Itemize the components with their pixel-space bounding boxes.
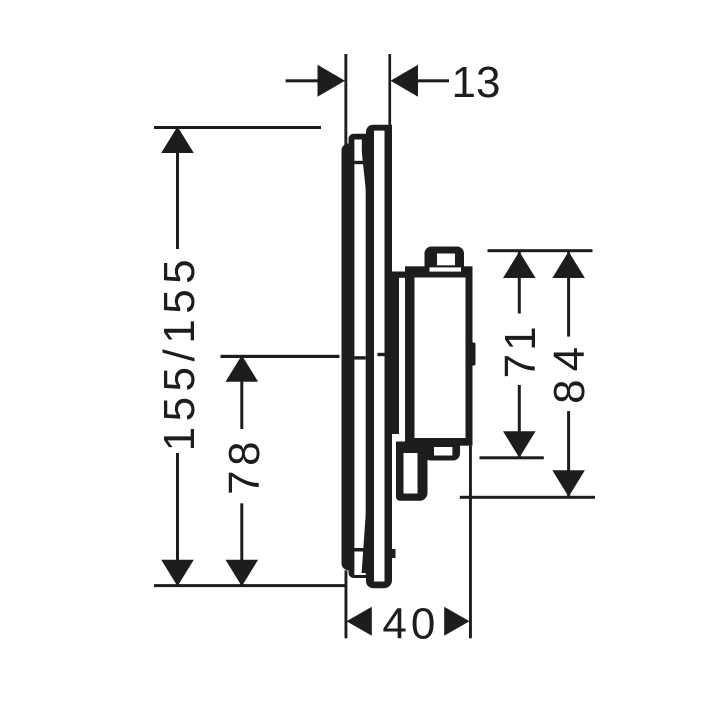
body interior white [415,278,466,439]
flush box interior white [404,453,418,494]
dim 78: tick across handle channel [354,356,366,359]
dimension graphics [154,54,595,638]
svg-text:40: 40 [382,599,439,648]
holder strip [392,272,399,435]
front plate [342,144,355,571]
dim 71: bottom arrowhead [503,431,536,458]
handle seam bottom [354,548,364,552]
dim 13: left arrowhead [318,65,346,97]
cap notch white [437,254,455,266]
dim 13: right extension line [388,54,391,127]
handle box outer [349,134,367,578]
dim 84: shaft bottom [567,411,570,496]
dim 13: right arrowhead [391,65,419,97]
cartridge top cap [425,247,465,269]
flush box outer [396,442,428,501]
white sliver under cap [430,267,462,271]
dim 84: top arrowhead [552,252,585,279]
dim 78: top extension line [221,355,340,358]
strip nub [392,549,396,558]
cartridge bottom cap [425,438,460,461]
cartridge body outer [405,266,473,445]
dim 78: bottom arrowhead [226,560,259,587]
handle back wall taper bottom [362,510,366,573]
dim 71: shaft bottom [518,385,521,457]
dim 84: shaft top [567,252,570,337]
dim 40: right extension line [469,446,472,639]
dim 71: shaft top [518,252,521,314]
dim 78: shaft bottom [240,503,243,586]
dim 155/155: shaft top [176,128,179,249]
dim 40: left arrowhead [347,607,372,636]
dim 84: bottom arrowhead [552,470,585,497]
dim 155/155: shaft bottom [176,453,179,586]
dim 13: left tail [286,79,318,82]
bottom cap notch white [434,447,452,456]
svg-text:84: 84 [545,339,594,404]
dim 155/155: top arrowhead [161,127,194,154]
svg-text:155/155: 155/155 [155,254,204,452]
dim 155/155: bottom extension line [154,584,345,587]
escutcheon interior white [374,131,385,582]
dim 40: right arrowhead [444,607,469,636]
dim 78: top arrowhead [226,355,259,382]
dim 71/84: top extension line [488,249,593,252]
right bump [471,343,476,366]
dim 71: bottom extension line [480,456,544,459]
handle back wall taper top [362,140,366,193]
holder top band [392,272,406,278]
dim 155/155: top extension line [154,126,321,129]
escutcheon outer [366,125,392,589]
dim 84: bottom extension line [460,496,595,499]
dim 78: tick inside escutcheon [378,353,386,356]
dim 71: top arrowhead [503,252,536,279]
dim 13: left extension line [344,54,347,146]
dim 13: right tail [418,79,449,82]
dim 40: left extension line [345,570,348,638]
dim 78: shaft top [240,355,243,429]
handle channel white [354,140,365,576]
svg-text:71: 71 [496,323,545,378]
dim 155/155: bottom arrowhead [161,560,194,587]
svg-text:78: 78 [220,437,269,495]
svg-text:13: 13 [452,58,501,107]
handle seam top [354,161,364,164]
